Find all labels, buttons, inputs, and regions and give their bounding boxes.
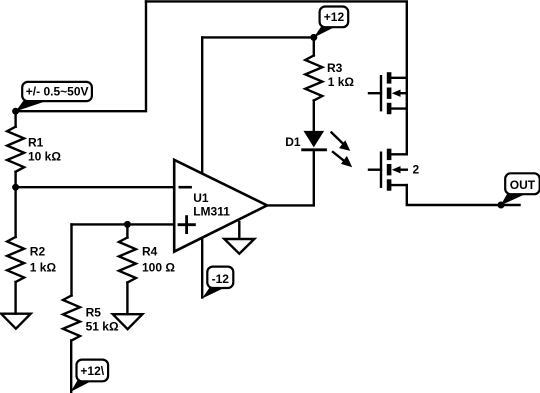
svg-text:R4: R4 [142,244,158,258]
svg-text:+/- 0.5~50V: +/- 0.5~50V [26,85,89,99]
svg-text:D1: D1 [285,135,301,149]
svg-text:R5: R5 [86,306,102,320]
svg-text:R1: R1 [28,135,44,149]
svg-text:U1: U1 [193,191,209,205]
svg-text:LM311: LM311 [193,205,230,219]
svg-text:1 kΩ: 1 kΩ [30,260,57,274]
svg-text:-12: -12 [212,272,230,286]
svg-text:51 kΩ: 51 kΩ [86,320,119,334]
svg-text:1 kΩ: 1 kΩ [328,75,355,89]
svg-text:+12\: +12\ [80,364,104,378]
svg-text:10 kΩ: 10 kΩ [28,149,61,163]
svg-text:2: 2 [413,162,420,176]
svg-text:OUT: OUT [510,178,536,192]
svg-text:100 Ω: 100 Ω [142,260,175,274]
svg-text:+12: +12 [324,10,345,24]
svg-text:R2: R2 [30,244,46,258]
svg-text:R3: R3 [327,61,343,75]
